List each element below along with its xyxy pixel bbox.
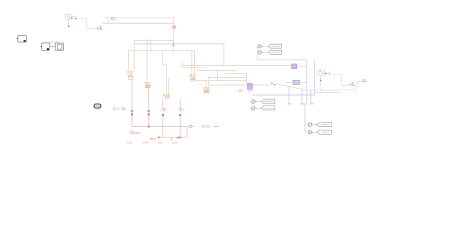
bus wire h2 bbox=[134, 43, 224, 45]
bus wire h1 bbox=[134, 40, 173, 42]
svg-text:SOUND: SOUND bbox=[201, 127, 210, 129]
net flag row3 bbox=[251, 99, 275, 103]
long vertical x314.5 bbox=[314, 60, 316, 95]
ground at module bbox=[68, 20, 70, 28]
mic box MK1 bbox=[40, 43, 50, 50]
wire v x147 bbox=[146, 39, 148, 82]
wire from U2 right bbox=[297, 65, 307, 67]
wires into resistor R3 bbox=[162, 51, 168, 94]
resistor R4 bbox=[190, 74, 196, 81]
net flag row4 bbox=[251, 106, 275, 110]
wire long purple y95 bbox=[252, 94, 314, 96]
bus wire h y65.4 bbox=[181, 64, 292, 66]
long vertical x306.8 bbox=[305, 60, 307, 131]
wire v x289 bbox=[288, 86, 290, 103]
junction dot bbox=[148, 126, 150, 128]
wire v x194.6 bbox=[194, 51, 196, 74]
label R21 bbox=[131, 131, 141, 135]
net flag row5 bbox=[305, 123, 332, 127]
diode pair D2 bbox=[97, 26, 102, 30]
wire v x128.6 bbox=[128, 51, 130, 71]
resistor R3 bbox=[163, 94, 169, 99]
wire vcc vertical bbox=[173, 18, 175, 51]
tick bbox=[170, 138, 172, 140]
wire diagonal from D3 bbox=[277, 84, 307, 90]
svg-text:100k: 100k bbox=[143, 140, 149, 144]
wire v x150.8 bbox=[150, 41, 152, 51]
svg-text:R22: R22 bbox=[150, 137, 156, 141]
bus wire h y74.3 bbox=[225, 73, 247, 75]
wire v R5 feeds bbox=[206, 77, 209, 86]
fuse F2 bbox=[363, 80, 366, 82]
bus wire h y77.7 bbox=[207, 76, 246, 78]
svg-text:100k: 100k bbox=[158, 140, 164, 144]
wire U3 to diodes bbox=[332, 74, 349, 85]
junction dots bottom bbox=[158, 137, 160, 139]
nc tick 1 bbox=[288, 103, 291, 104]
transistor Q2 bbox=[147, 88, 150, 127]
battery B1 bbox=[94, 104, 101, 110]
transistor Q4 bbox=[178, 99, 183, 137]
ground at U3 bbox=[320, 75, 322, 81]
ic U2 purple bbox=[292, 64, 297, 69]
wire v x182 bbox=[181, 61, 183, 68]
transistor Q1 bbox=[131, 79, 134, 127]
svg-text:R14: R14 bbox=[163, 94, 169, 98]
wire h y67.6 bbox=[182, 67, 207, 69]
wire to vcc rail bbox=[115, 17, 174, 19]
svg-text:10k: 10k bbox=[127, 74, 133, 78]
crystal Y1 bbox=[285, 80, 307, 84]
wire v x217.7 bbox=[217, 71, 219, 81]
wire v x246.6 bbox=[246, 74, 248, 84]
wire from module to diode cluster bbox=[79, 19, 97, 29]
label R22 bbox=[150, 137, 160, 141]
svg-text:sound module: sound module bbox=[44, 40, 61, 44]
wire after D4 bbox=[356, 81, 368, 84]
wire node VIN long bbox=[103, 22, 174, 24]
svg-text:10k: 10k bbox=[190, 77, 196, 81]
nc tick 3 bbox=[310, 103, 313, 104]
net label tick bbox=[172, 43, 174, 46]
module U3 right bbox=[318, 70, 331, 75]
speaker box SP1 bbox=[16, 36, 26, 43]
fuse F1 bbox=[105, 17, 115, 19]
wire riser bbox=[108, 18, 110, 24]
svg-text:R21: R21 bbox=[135, 131, 141, 135]
label Q group left bbox=[113, 107, 126, 111]
wire h y92.6 bbox=[315, 92, 342, 94]
emitter rail bbox=[132, 127, 187, 138]
bus wire h3 bbox=[129, 50, 195, 52]
regulator module U1 bbox=[66, 15, 72, 20]
net flag row1 bbox=[258, 44, 282, 48]
transistor Q3 bbox=[161, 99, 166, 137]
wire h y60 bbox=[258, 59, 307, 61]
net label purple bbox=[189, 125, 219, 129]
resistor R2 bbox=[145, 81, 151, 88]
nc tick 2 bbox=[300, 103, 303, 104]
wire v x310.9 bbox=[310, 90, 312, 103]
svg-text:123: 123 bbox=[238, 88, 243, 92]
wire v x134 bbox=[133, 41, 135, 71]
diode pair D3 green bbox=[271, 83, 276, 85]
wire v x302 bbox=[301, 89, 303, 103]
wire h y90 bbox=[307, 89, 357, 91]
wire from flags down bbox=[257, 48, 259, 60]
net flag row6 bbox=[305, 130, 332, 134]
resistor R1 bbox=[127, 71, 133, 80]
jack J1 bbox=[50, 43, 63, 50]
bus wire h y85 bbox=[208, 84, 271, 86]
bus wire h y81.1 bbox=[196, 80, 247, 82]
connector J2 purple bbox=[247, 83, 252, 92]
wire v x223.9 bbox=[223, 44, 225, 66]
diode pair D4 bbox=[350, 82, 355, 86]
svg-text:100k: 100k bbox=[127, 140, 133, 144]
green return wire bbox=[321, 81, 357, 90]
net flag row2 bbox=[258, 50, 282, 54]
power flag PWR01 bbox=[173, 26, 176, 30]
resistor R5 bbox=[203, 86, 209, 93]
svg-text:100k: 100k bbox=[172, 140, 178, 144]
diode D1 arrow at module output bbox=[71, 17, 78, 20]
svg-text:Q1-2: Q1-2 bbox=[113, 107, 120, 111]
wire v x191.8 bbox=[191, 51, 193, 74]
bus wire h y70.6 bbox=[197, 70, 237, 72]
